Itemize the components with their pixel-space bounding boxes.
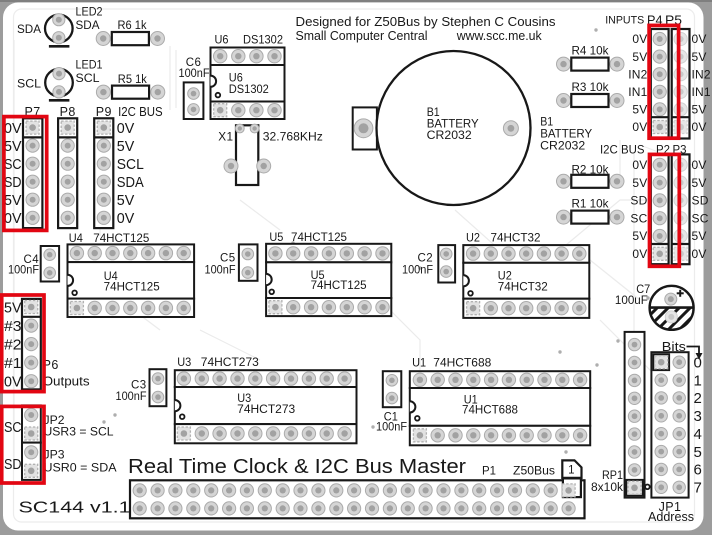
highlight box P2 P3 [650,154,680,266]
svg-text:5V: 5V [4,192,22,209]
svg-text:7: 7 [694,480,703,497]
capacitor C4 [41,246,59,282]
svg-text:R2 10k: R2 10k [572,163,609,177]
svg-text:BATTERY: BATTERY [540,129,592,141]
svg-text:SD: SD [4,174,22,191]
svg-text:5V: 5V [117,138,135,155]
IC U2 74HCT32 socket [463,245,589,318]
highlight box P7 [4,117,47,231]
battery B1 tab [353,107,377,149]
svg-text:5V: 5V [117,192,135,209]
svg-text:R6 1k: R6 1k [118,20,147,32]
resistor network RP1 [625,332,650,498]
svg-text:SDA: SDA [17,24,41,36]
svg-text:INPUTS: INPUTS [605,15,644,27]
svg-text:R1 10k: R1 10k [572,197,609,211]
resistor R1 10k [557,210,625,224]
capacitor C7 [612,286,712,342]
svg-text:CR2032: CR2032 [540,140,585,152]
svg-text:74HCT32: 74HCT32 [498,281,548,293]
svg-text:SCL: SCL [17,78,42,90]
svg-text:C5: C5 [220,253,236,265]
svg-text:3: 3 [694,408,703,425]
svg-text:#1: #1 [4,355,22,372]
svg-text:74HCT125: 74HCT125 [311,280,367,292]
P9 pin labels [117,120,144,227]
highlight box JP2 JP3 [2,406,44,483]
svg-text:100nF: 100nF [376,422,407,434]
svg-text:IN1: IN1 [628,85,647,99]
svg-text:USR3 = SCL: USR3 = SCL [44,425,114,439]
capacitor C1 [383,371,402,407]
svg-text:74HCT125: 74HCT125 [291,230,347,244]
svg-text:U1: U1 [412,356,426,370]
svg-text:100nF: 100nF [205,265,236,277]
svg-text:5V: 5V [632,103,647,117]
connector P1 Z50Bus [130,478,585,518]
svg-text:1: 1 [568,464,575,476]
svg-text:U6: U6 [215,33,229,47]
header P6 [22,299,41,390]
svg-text:SC144 v1.1: SC144 v1.1 [19,499,131,516]
resistor R3 10k [557,94,625,108]
svg-text:0V: 0V [692,32,707,46]
svg-text:Designed for Z50Bus by Stephen: Designed for Z50Bus by Stephen C Cousins [296,15,556,29]
resistor R2 10k [557,174,625,188]
svg-text:0V: 0V [117,120,135,137]
IC U3 74HCT273 socket [175,370,357,443]
svg-text:0V: 0V [692,158,707,172]
header P3 [672,154,690,264]
svg-text:SCL: SCL [76,73,101,85]
IC U4 74HCT125 socket [68,244,195,317]
via dots [102,28,649,453]
svg-text:0V: 0V [692,120,707,134]
resistor R4 10k [557,57,625,71]
pcb traces [14,40,700,470]
svg-text:Outputs: Outputs [43,375,90,389]
svg-text:5: 5 [694,444,703,461]
svg-text:5V: 5V [692,176,707,190]
header JP1 [651,352,688,497]
svg-text:DS1302: DS1302 [243,33,283,47]
IC U5 74HCT125 socket [266,244,391,316]
svg-text:5V: 5V [632,229,647,243]
jumper JP2 [22,405,41,442]
svg-text:USR0 = SDA: USR0 = SDA [44,460,117,474]
P4 pin labels [628,32,647,134]
svg-text:74HCT125: 74HCT125 [104,281,160,293]
svg-text:B1: B1 [427,107,440,119]
LED LED1 [45,68,73,101]
crystal X1 [224,124,271,185]
svg-text:74HCT688: 74HCT688 [433,356,491,370]
battery pad negative [354,119,373,138]
svg-text:IN1: IN1 [692,85,711,99]
svg-text:U2: U2 [466,231,480,245]
svg-text:5V: 5V [692,103,707,117]
svg-text:X1: X1 [218,130,233,144]
svg-text:SDA: SDA [117,174,144,191]
svg-text:IN2: IN2 [692,67,711,81]
resistor R6 1k [96,32,164,46]
highlight box P4 P5 [649,25,679,138]
svg-text:BATTERY: BATTERY [427,119,479,131]
svg-text:IN2: IN2 [628,67,647,81]
header P4 [651,29,669,139]
svg-text:P9: P9 [96,105,112,119]
svg-text:2: 2 [694,390,703,407]
svg-text:SC: SC [4,419,22,436]
svg-text:LED1: LED1 [76,60,103,72]
svg-text:0: 0 [694,355,703,372]
jumper JP3 [22,443,41,480]
svg-text:R4 10k: R4 10k [572,44,609,58]
svg-text:I2C BUS: I2C BUS [118,105,163,119]
P6 pin labels [4,299,22,390]
svg-text:SD: SD [692,194,709,208]
capacitor C2 [438,245,455,282]
svg-text:LED2: LED2 [76,6,103,18]
svg-text:0V: 0V [632,32,647,46]
svg-text:5V: 5V [632,50,647,64]
svg-text:RP1: RP1 [602,470,623,482]
svg-text:C3: C3 [131,380,147,392]
capacitor C3 [150,369,167,406]
svg-text:74HCT273: 74HCT273 [237,404,295,416]
battery B1 circle [377,51,531,205]
svg-text:8x10k: 8x10k [591,482,623,494]
P3 pin labels [692,158,709,261]
svg-text:U5: U5 [269,230,283,244]
svg-text:0V: 0V [692,247,707,261]
capacitor C6 [184,82,204,119]
svg-text:Small Computer Central: Small Computer Central [296,29,428,43]
svg-text:6: 6 [694,462,703,479]
LED LED2 [45,14,73,47]
svg-text:5V: 5V [632,176,647,190]
svg-text:Z50Bus: Z50Bus [513,465,555,477]
svg-text:DS1302: DS1302 [229,84,269,96]
P7 pin labels [4,120,22,227]
svg-text:#2: #2 [4,336,22,353]
svg-text:0V: 0V [4,120,22,137]
resistor R5 1k [96,85,164,99]
svg-text:SCL: SCL [117,156,144,173]
svg-text:4: 4 [694,426,703,443]
svg-text:74HCT273: 74HCT273 [201,355,259,369]
capacitor C5 [239,244,258,280]
svg-text:1: 1 [694,372,703,389]
svg-text:SD: SD [4,456,22,473]
svg-text:SC: SC [692,211,709,225]
svg-text:#3: #3 [4,318,22,335]
Bits arrow [687,347,700,355]
JP1 bit numbers [694,355,703,497]
svg-text:B1: B1 [540,117,553,129]
header P7 [23,118,42,228]
svg-text:www.scc.me.uk: www.scc.me.uk [456,29,543,43]
svg-text:100nF: 100nF [402,265,433,277]
P5 pin labels [692,32,711,134]
svg-text:R3 10k: R3 10k [572,80,609,94]
svg-text:5V: 5V [4,299,22,316]
svg-text:SDA: SDA [76,20,100,32]
svg-text:R5 1k: R5 1k [118,74,147,86]
svg-text:0V: 0V [4,374,22,391]
svg-text:SD: SD [630,194,647,208]
svg-text:0V: 0V [117,210,135,227]
svg-text:0V: 0V [4,210,22,227]
header P5 [672,29,690,139]
svg-text:5V: 5V [4,138,22,155]
header P2 [651,154,669,264]
svg-text:5V: 5V [692,50,707,64]
svg-text:74HCT688: 74HCT688 [462,405,518,417]
svg-text:SC: SC [4,156,22,173]
svg-text:100nF: 100nF [8,265,39,277]
IC U1 74HCT688 socket [410,371,590,445]
svg-text:Address: Address [648,510,694,524]
svg-text:CR2032: CR2032 [427,130,472,142]
header P8 [58,118,77,228]
svg-text:100nF: 100nF [179,68,210,80]
svg-text:0V: 0V [632,247,647,261]
svg-text:5V: 5V [692,229,707,243]
highlight box P6 [2,295,44,392]
svg-text:U3: U3 [177,355,191,369]
svg-text:0V: 0V [632,120,647,134]
svg-text:I2C BUS: I2C BUS [600,142,645,156]
svg-text:U4: U4 [69,231,83,245]
pin 1 flag [562,460,581,478]
svg-text:74HCT32: 74HCT32 [491,231,541,245]
svg-text:100nF: 100nF [116,391,147,403]
svg-text:SC: SC [630,211,647,225]
battery pad positive [503,121,518,136]
svg-text:P8: P8 [60,105,76,119]
P2 pin labels [630,158,647,261]
svg-text:Real Time Clock & I2C Bus Mast: Real Time Clock & I2C Bus Master [128,455,466,478]
svg-text:32.768KHz: 32.768KHz [263,130,323,144]
svg-text:100uF: 100uF [615,295,648,307]
svg-text:0V: 0V [632,158,647,172]
header P9 [94,118,113,228]
svg-text:P1: P1 [482,465,496,477]
svg-text:U6: U6 [229,73,243,85]
IC U6 DS1302 socket [211,48,285,120]
svg-text:74HCT125: 74HCT125 [93,231,149,245]
svg-text:C2: C2 [417,253,433,265]
